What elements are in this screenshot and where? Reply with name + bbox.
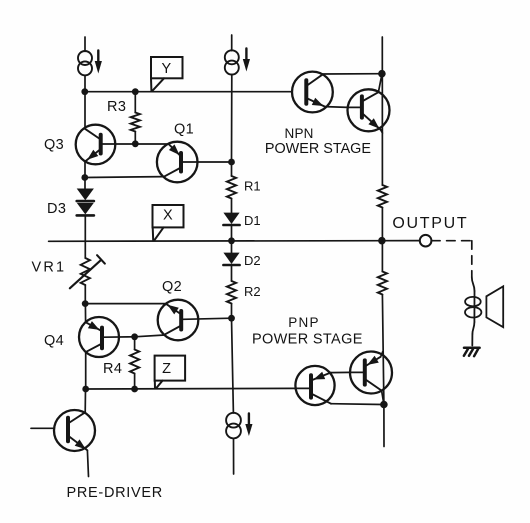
wire right rail middle	[381, 208, 383, 272]
transistor T2 NPN output	[348, 89, 390, 131]
wire D1 to center rail	[231, 225, 233, 241]
svg-text:D1: D1	[244, 213, 261, 228]
current source I1 (top left)	[78, 51, 102, 76]
wire pre-driver emitter	[87, 450, 88, 476]
junction Z rail at R4	[131, 386, 138, 393]
wire Q1 collector line	[85, 176, 165, 179]
resistor R2	[227, 281, 236, 304]
junction Q4 base / R4	[131, 333, 138, 340]
wire T2 emitter to right rail	[381, 130, 383, 133]
junction top rail left	[81, 88, 88, 95]
svg-text:R2: R2	[244, 284, 261, 299]
node Z rail	[86, 387, 296, 390]
wire top rail	[85, 91, 292, 93]
wire R3 top lead	[134, 92, 136, 113]
wire Q4 collector lead	[85, 352, 87, 389]
wire D3 to VR1 (crosses X rail)	[84, 215, 86, 258]
svg-text:Q1: Q1	[174, 122, 194, 138]
wire Q4 base to Q2 collector	[135, 335, 165, 337]
junction output node	[378, 237, 386, 245]
svg-text:NPN: NPN	[285, 126, 314, 141]
wire T1 collector to right rail	[322, 73, 382, 75]
svg-text:PRE-DRIVER: PRE-DRIVER	[67, 485, 163, 501]
svg-text:POWER STAGE: POWER STAGE	[252, 331, 363, 347]
junction Q3 emitter / Q1 collector	[81, 174, 88, 181]
wire pre-driver collector	[84, 389, 86, 412]
wire D2 to R2	[231, 265, 233, 281]
resistor R1	[227, 176, 236, 199]
wire T3 emitter to T4 base	[331, 371, 350, 373]
resistor R3	[131, 113, 140, 132]
transistor Q4	[79, 317, 135, 357]
wire middle column down (crosses Z rail)	[232, 318, 234, 413]
transistor Q2	[158, 300, 232, 341]
node X flag	[153, 205, 184, 240]
junction VR1 / Q2 emitter line	[82, 300, 89, 307]
current source I3 (bottom)	[226, 413, 252, 439]
wire R1 top lead	[231, 162, 233, 176]
current source I2	[225, 49, 250, 75]
diode D3 (two series diodes)	[77, 189, 94, 216]
wire center rail (node X)	[49, 240, 420, 243]
svg-text:VR1: VR1	[32, 259, 67, 275]
diode D2	[223, 253, 239, 265]
wire top of second column	[231, 35, 233, 51]
junction PNP collectors	[380, 401, 388, 409]
svg-text:Y: Y	[161, 61, 171, 77]
ground	[464, 348, 480, 356]
svg-text:PNP: PNP	[288, 315, 320, 330]
wire R2 to Q2 base junction	[231, 304, 233, 319]
svg-text:Q2: Q2	[162, 279, 182, 295]
svg-text:R4: R4	[103, 361, 122, 377]
junction Q1 base / R1	[228, 159, 235, 166]
wire right rail bottom	[382, 295, 384, 405]
wire T4 collector to junction	[382, 391, 384, 405]
wire top of left column	[84, 37, 86, 51]
speaker LS1	[465, 277, 503, 346]
junction Q2 base / R2	[228, 315, 235, 322]
svg-text:R1: R1	[244, 179, 261, 194]
wire center rail to D2	[231, 241, 233, 253]
wire R3 bottom lead	[134, 132, 136, 144]
svg-text:Q4: Q4	[44, 333, 64, 349]
svg-text:Q3: Q3	[44, 137, 64, 153]
wire Q3 emitter to junction	[84, 161, 86, 178]
variable resistor VR1	[70, 255, 105, 288]
transistor T1 NPN driver	[292, 72, 333, 113]
junction center rail / diode column	[228, 237, 235, 244]
wire right rail tail	[383, 405, 385, 447]
transistor T4 PNP output	[350, 352, 392, 394]
svg-text:X: X	[163, 207, 173, 223]
wire below current source I3	[233, 438, 235, 474]
transistor Q5 pre-driver	[31, 410, 95, 451]
node Y flag	[151, 57, 183, 91]
wire Q2 emitter line	[85, 303, 166, 305]
svg-text:OUTPUT: OUTPUT	[392, 215, 468, 232]
wire VR1 bottom lead	[84, 285, 86, 304]
wire R1 to D1	[231, 199, 233, 214]
transistor Q3	[76, 125, 169, 165]
wire D3 top lead	[84, 178, 86, 190]
wire Q4 emitter lead	[84, 304, 86, 323]
wire R4 top lead	[134, 337, 136, 350]
transistor T3 PNP driver	[295, 366, 334, 405]
junction top rail at R3	[132, 88, 139, 95]
wire current source I1 to top rail	[84, 75, 86, 92]
transistor Q1	[157, 142, 232, 183]
svg-text:D2: D2	[244, 253, 261, 268]
node Z flag	[155, 356, 186, 389]
svg-text:Z: Z	[162, 361, 171, 377]
wire R4 bottom lead	[134, 374, 136, 390]
diode D1	[223, 213, 239, 225]
wire right rail top	[381, 37, 383, 185]
junction Z rail left	[82, 386, 89, 393]
resistor lower right	[378, 272, 387, 295]
wire T4 emitter to rail	[381, 352, 383, 357]
wire T2 collector to junction	[378, 74, 382, 92]
svg-text:POWER STAGE: POWER STAGE	[265, 141, 371, 157]
wire dashed output to speaker	[432, 241, 472, 277]
output terminal	[420, 235, 432, 247]
svg-text:R3: R3	[107, 99, 126, 115]
wire Q3 collector (top rail to Q3)	[84, 92, 86, 129]
junction NPN collectors	[378, 70, 386, 78]
resistor upper right	[378, 185, 387, 208]
wire I2 to Q1 base junction (crosses top rail)	[231, 74, 233, 162]
wire T1 emitter to T2 base	[325, 106, 348, 109]
resistor R4	[130, 350, 139, 374]
svg-text:D3: D3	[47, 201, 66, 217]
wire T3 collector to junction	[331, 403, 384, 406]
junction R3 / Q3 base	[132, 140, 139, 147]
